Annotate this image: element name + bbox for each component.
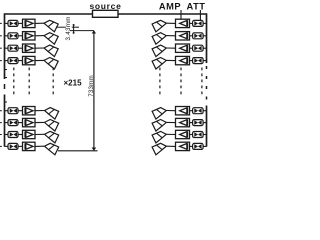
svg-text:ATT: ATT (187, 1, 206, 11)
svg-text:×215: ×215 (64, 79, 83, 88)
svg-text:source: source (89, 1, 121, 11)
svg-text:733mm: 733mm (88, 75, 95, 97)
svg-text:AMP: AMP (159, 1, 181, 11)
svg-text:3.43mm: 3.43mm (65, 16, 72, 40)
